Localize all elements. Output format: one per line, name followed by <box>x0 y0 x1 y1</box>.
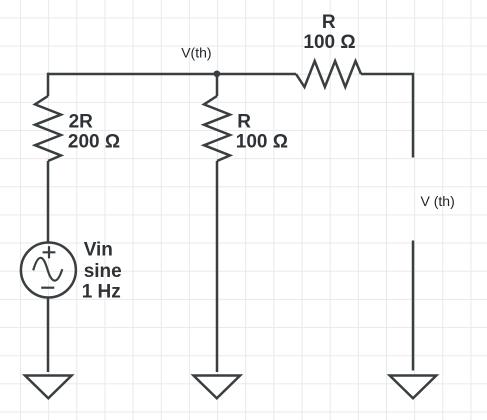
svg-text:R: R <box>322 12 336 33</box>
svg-text:V(th): V(th) <box>181 45 211 61</box>
svg-text:sine: sine <box>84 261 122 282</box>
svg-text:Vin: Vin <box>84 239 113 260</box>
svg-text:R: R <box>237 111 251 132</box>
svg-text:1 Hz: 1 Hz <box>82 282 121 303</box>
svg-text:100 Ω: 100 Ω <box>303 32 355 53</box>
svg-text:2R: 2R <box>69 111 94 132</box>
svg-text:100 Ω: 100 Ω <box>236 131 288 152</box>
svg-text:V (th): V (th) <box>421 193 455 209</box>
svg-text:200 Ω: 200 Ω <box>68 131 120 152</box>
